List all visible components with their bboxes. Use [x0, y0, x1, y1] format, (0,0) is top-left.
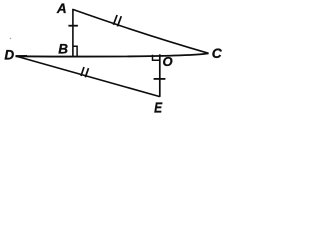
junction wedge at D	[16, 55, 28, 57]
wire: segment A-B (vertical)	[72, 9, 74, 56]
tick mark on O-E	[154, 78, 166, 80]
double tick mark on D-E	[81, 67, 89, 77]
svg-text:O: O	[163, 54, 173, 69]
wire: segment D-E	[16, 56, 160, 97]
double tick mark on A-C	[113, 15, 121, 26]
svg-text:E: E	[154, 100, 163, 116]
tick mark on A-B	[68, 25, 78, 27]
wire: segment D-C	[16, 53, 209, 56]
wire: segment A-C	[72, 9, 208, 53]
svg-text:A: A	[56, 1, 67, 16]
svg-text:B: B	[58, 41, 68, 56]
svg-text:D: D	[4, 48, 14, 63]
right-angle mark at O	[153, 55, 160, 61]
wire: segment O-E (vertical)	[159, 54, 161, 97]
svg-text:C: C	[212, 46, 223, 61]
scan speck	[10, 38, 11, 39]
right-angle mark at B	[73, 46, 77, 56]
